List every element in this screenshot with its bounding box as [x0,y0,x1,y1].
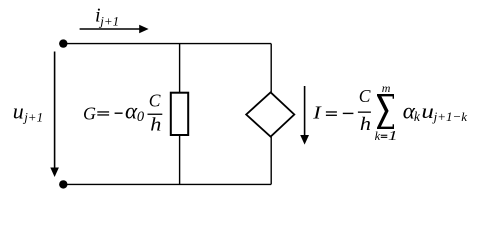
svg-text:j+1−k: j+1−k [432,109,468,124]
svg-text:C: C [149,90,161,110]
svg-text:0: 0 [137,109,145,125]
svg-text:h: h [360,115,371,135]
svg-text:C: C [359,86,371,106]
svg-text:G: G [83,103,96,123]
svg-text:m: m [382,81,391,95]
svg-text:u: u [13,99,24,124]
svg-text:h: h [150,115,161,135]
svg-text:j+1: j+1 [22,109,43,124]
svg-text:I: I [312,103,322,122]
svg-text:u: u [421,100,433,122]
svg-text:k: k [414,109,421,124]
svg-text:j+1: j+1 [98,13,119,28]
svg-text:k: k [375,129,381,143]
svg-text:1: 1 [388,127,398,143]
